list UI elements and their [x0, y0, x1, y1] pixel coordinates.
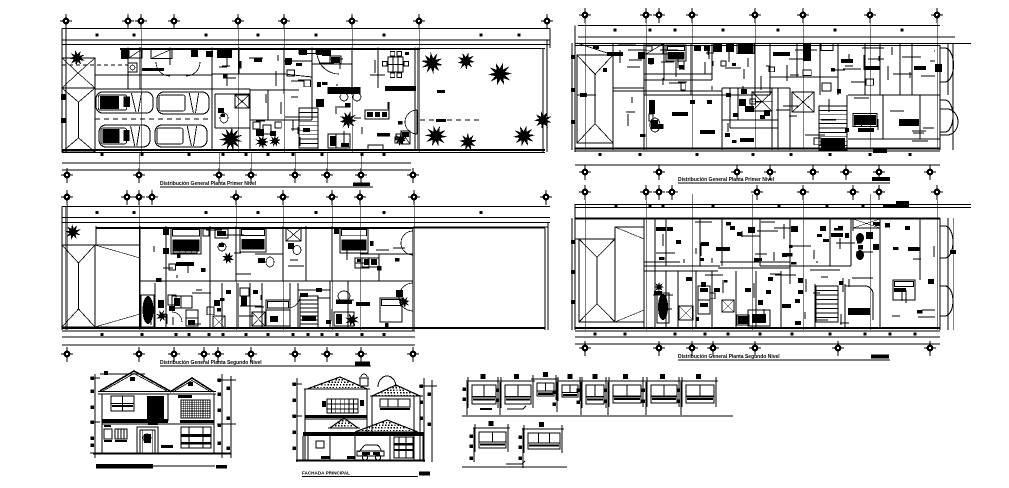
plan 3 bottom wall [575, 149, 940, 152]
plan 1 laundry fixtures [121, 49, 232, 72]
plan 3 drive diag [577, 43, 613, 97]
plan 1 bottom bubble stems [139, 152, 361, 171]
elevation 1 lattice window [178, 395, 210, 418]
plan 1 bath shower [235, 95, 249, 108]
elevation 1 lower left windows [104, 429, 127, 442]
plan 4 top wall [575, 218, 940, 220]
plan 1 bath fixtures [218, 108, 228, 123]
plan 4 top bubbles [579, 185, 943, 200]
elevation 2 hip roof right [370, 385, 423, 396]
elevation 2 porch roof large [303, 420, 423, 436]
plan 2 bottom tick row [62, 333, 415, 337]
plan 1 desk [328, 134, 350, 148]
elevation 1 ground line [93, 453, 231, 455]
plan 2 bedroom3 walls [306, 226, 332, 281]
svg-text:Distribución General Planta Pr: Distribución General Planta Primer Nivel [160, 181, 257, 187]
plan 1 bath walls [215, 94, 250, 128]
plan 2 desk area [172, 296, 198, 326]
plan 3 kitchen fixtures [638, 44, 710, 65]
plan 1 dashed drive line [62, 64, 128, 66]
window detail V6 [604, 374, 646, 415]
plan 1 tv unit [365, 110, 389, 119]
plan 3 kitchen walls [644, 43, 770, 95]
plan 4 left hip roof [579, 239, 615, 322]
plan 1 top grid bubbles [60, 14, 553, 29]
elevation 1 body outline [102, 394, 214, 453]
elevation 2 hip roof left [304, 377, 370, 389]
elevation 1 eave lines [98, 392, 216, 395]
window details baseline 2 [462, 466, 567, 468]
plan 1 hall fixtures [253, 58, 291, 149]
svg-text:Distribución General Planta Pr: Distribución General Planta Primer Nivel [678, 177, 775, 183]
plan 2 bath2 fixtures [156, 295, 176, 322]
window detail V1 [463, 374, 501, 415]
plan 2 bed4 x [252, 312, 265, 326]
plan 4 stair4 [816, 286, 873, 322]
plan 2 top ticks [96, 211, 483, 214]
plan 4 scale mark top [883, 201, 909, 207]
plan 1 left hip roof [62, 88, 95, 152]
plan 1 dining walls [378, 48, 418, 151]
window detail V10 [506, 422, 564, 468]
plan 2 top-left terrace [62, 224, 140, 283]
plan 2 mid corridor wall [330, 254, 413, 281]
plan 1 title [160, 181, 373, 187]
plan 2 top wall [96, 227, 545, 229]
plan 1 laundry door arcs [156, 62, 200, 76]
elevation 1 scale bar [96, 464, 227, 469]
elevation 2 small window ll [316, 441, 330, 459]
plan 2 wc x [213, 300, 225, 328]
plan 4 xboxes [679, 300, 734, 320]
elevation 2 garage door [394, 437, 413, 458]
plan 4 top dims [575, 205, 971, 208]
window details baseline 1 [462, 415, 733, 417]
plan 2 bed3 shower [286, 228, 301, 255]
plan 1 garden tree upper left [69, 50, 85, 66]
plan 4 interior clutter [653, 222, 935, 325]
plan 3 bath fixtures [726, 89, 770, 117]
plan 3 big X void [792, 92, 814, 112]
elevation 2 mid band [305, 415, 367, 419]
plan 3 top ticks [614, 29, 904, 32]
plan 2 bathtub [141, 295, 154, 327]
plan 3 misc marks [649, 100, 765, 137]
plan 4 closet rects [698, 286, 710, 314]
plan 2 garage roof strip [95, 245, 140, 327]
plan 1 car A [96, 92, 153, 113]
plan 2 outer [62, 207, 548, 331]
plan 4 right bedroom [893, 247, 920, 300]
elevation 1 gable roof left [100, 371, 170, 391]
plan 2 bedroom1 walls [140, 226, 330, 283]
plan 2 kitchen2 [362, 254, 379, 281]
plan 1 garden plants [421, 52, 551, 150]
plan 1 car D [155, 125, 207, 147]
plan 4 outer [571, 204, 940, 330]
plan 1 bottom wall [62, 150, 545, 153]
plan 3 outer [571, 26, 940, 153]
plan 2 top bubbles [61, 190, 552, 205]
elevation 2 porch roof small [328, 418, 360, 428]
plan 4 top row walls [666, 218, 920, 280]
plan 1 kitchen arc [317, 55, 339, 74]
elevation 2 title [302, 471, 430, 477]
window detail V9 [470, 421, 511, 462]
plan 1 kitchen counters [239, 48, 352, 75]
plan 2 bed3 closet [355, 258, 369, 268]
elevation 1 window upper left [111, 396, 134, 411]
plan 2 lounge chairs [215, 229, 234, 264]
elevation 1 front door [137, 427, 158, 453]
elevation 1 small marks [104, 423, 158, 427]
elevation 1 dark door mid [147, 396, 164, 421]
plan 2 corridor stuff [288, 288, 331, 324]
elevation 2 upper body [305, 389, 423, 460]
plan 2 left hip roof [62, 245, 95, 327]
plan 3 interior clutter [618, 45, 935, 145]
plan 2 stair2 [300, 296, 318, 328]
plan 1 top grid lines [66, 21, 419, 152]
plan 4 lower couch right [894, 288, 906, 292]
elevation 1 gable roof right [170, 378, 214, 392]
plan 2 title [160, 360, 371, 366]
plan 1 living circles [340, 93, 361, 101]
plan 2 bed1 [171, 228, 201, 254]
window detail V5 [577, 374, 609, 415]
plan 2 bottom wall [62, 328, 545, 331]
plan 4 bed lower [748, 310, 770, 326]
plan 3 bed room right [899, 119, 919, 126]
plan 3 mid fixtures [773, 44, 942, 73]
elevation 1 top mark [100, 371, 145, 375]
elevation 1 mid floor band [102, 419, 214, 424]
svg-text:Distribución General Planta Se: Distribución General Planta Segundo Nive… [678, 354, 780, 360]
plan 1 top dimension lines [62, 29, 550, 45]
plan 4 mid wall [644, 262, 851, 271]
plan 1 outer boundary [62, 29, 550, 153]
plan 3 left strip [577, 43, 644, 150]
plan 3 bath fan [752, 92, 772, 111]
plan 1 bottom bubbles [61, 168, 419, 183]
plan 4 upper fixtures [656, 226, 910, 262]
elevation 2 tower dome [378, 376, 396, 387]
plan 1 sofa low [368, 145, 383, 150]
elevation 2 lower left wall [303, 432, 355, 460]
plan 4 bay right [940, 218, 956, 330]
plan 3 top dims [575, 26, 971, 46]
elevation 2 window right [380, 399, 410, 410]
plan 4 lower fixtures [714, 288, 791, 325]
plan 1 plant below bath [219, 127, 243, 151]
plan 2 lower dim [62, 344, 415, 346]
plan 3 central walls [613, 91, 940, 150]
plan 2 balc arc [399, 231, 413, 311]
plan 3 right walls [848, 43, 940, 139]
plan 3 bay window right [940, 43, 953, 150]
elevation 1 left dim line [90, 374, 100, 458]
plan 2 top dim lines [62, 207, 550, 223]
window detail V4 [553, 374, 583, 412]
plan 2 bed2 [240, 228, 266, 252]
plan 1 stair well [299, 99, 324, 150]
plan 4 bathtub2 [657, 293, 669, 323]
plan 3 appliance row [713, 44, 754, 54]
elevation 2 ground [296, 460, 425, 462]
svg-text:Distribución General Planta Se: Distribución General Planta Segundo Nive… [160, 360, 262, 366]
elevation 2 car side [357, 445, 384, 460]
plan 4 garage roof [575, 227, 644, 322]
plan 3 top bubbles [579, 8, 943, 23]
plan 2 bed3 [334, 228, 368, 253]
elevation 2 chimney [359, 374, 369, 386]
plan 1 x cabinet [394, 131, 410, 146]
svg-text:FACHADA PRINCIPAL: FACHADA PRINCIPAL [302, 471, 350, 476]
plan 4 title [678, 354, 890, 360]
plan 1 living plant [339, 111, 357, 129]
plan 3 stair3 [819, 95, 847, 150]
plan 2 terrace rect [413, 227, 548, 260]
plan 3 living couch [672, 112, 688, 116]
plan 3 bath cluster walls [722, 88, 790, 150]
plan 2 famroom [334, 291, 359, 327]
plan 1 dining table [383, 52, 409, 78]
plan 3 bottom dim [575, 153, 940, 165]
plan 1 top column ticks [96, 34, 521, 37]
plan 4 left walls [615, 218, 655, 328]
plan 3 couch top left [607, 52, 623, 56]
elevation 2 right dim [419, 378, 437, 462]
plan 4 wc room [853, 219, 880, 260]
plan 2 bottom bubbles [61, 347, 419, 362]
plan 2 interior clutter [151, 230, 405, 327]
plan 3 lower couches [700, 130, 887, 153]
elevation 1 right lower band [161, 427, 211, 448]
plan 2 bed1 sidetables [163, 228, 209, 254]
plan 1 garden door arc [405, 110, 417, 134]
plan 1 car B [157, 92, 209, 114]
plan 4 grid stems [585, 194, 937, 330]
plan 4 lower walls [666, 266, 880, 328]
plan 2 bed5 room [356, 290, 410, 322]
plan 3 lower right bay [940, 109, 958, 135]
elevation 2 carport posts [308, 436, 420, 460]
plan 2 bed4 [266, 300, 290, 326]
plan 2 grid stems [67, 197, 414, 330]
plan 1 hall walls [212, 48, 312, 151]
plan 3 title [678, 177, 890, 183]
plan 1 bottom dim ticks [62, 153, 411, 163]
elevation 2 left dim [292, 378, 302, 462]
plan 1 mid walls [212, 48, 352, 121]
plan 2 bath2 [255, 254, 283, 267]
plan 1 car C [99, 125, 150, 147]
plan 4 bottom bubbles [579, 341, 936, 356]
plan 4 corridor jog [790, 262, 840, 284]
elevation 2 window grid left [322, 399, 364, 413]
plan 1 left roof plan upper [62, 58, 95, 88]
plan 4 misc dark [654, 277, 803, 295]
plan 2 small room fixtures [226, 288, 262, 306]
plan 2 dresser1 [176, 262, 194, 266]
plan 1 top wall [120, 48, 545, 51]
plan 1 sofa dash [377, 133, 390, 137]
plan 2 lower band walls [140, 227, 413, 331]
plan 1 lower dim line [62, 169, 411, 171]
plan 1 living planters [328, 86, 416, 94]
elevation 1 right dim lines [217, 374, 236, 458]
window detail V2 [496, 374, 536, 415]
window detail V3 [531, 372, 558, 400]
window detail V7 [642, 374, 682, 415]
plan 3 left hip roof [577, 55, 613, 143]
plan 3 dark room rect [853, 114, 877, 133]
plan 1 garage walls [95, 48, 212, 151]
plan 4 lower dim [575, 343, 940, 345]
window detail V8 [677, 374, 719, 415]
plan 3 mid walls [613, 43, 838, 95]
plan 3 grid stems [585, 15, 937, 150]
plan 1 garage dashed centerline [95, 118, 212, 120]
plan 4 bottom ticks [575, 333, 940, 338]
plan 2 bedroom2 walls [236, 226, 283, 281]
plan 1 garden dashes [420, 119, 480, 122]
plan 1 interior clutter [61, 52, 409, 146]
plan 1 laundry band walls [95, 47, 212, 89]
plan 3 bottom bubbles [579, 165, 936, 180]
plan 4 bottom wall [575, 328, 940, 331]
